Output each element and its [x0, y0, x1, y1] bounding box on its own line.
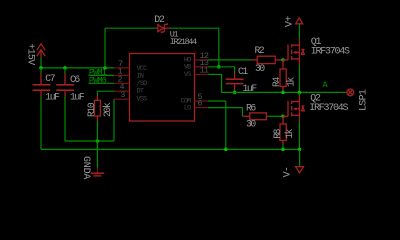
wire VB to C1 — [208, 66, 235, 68]
wire D2 cathode to VB — [171, 27, 219, 29]
wire R6 to Q2 gate — [268, 115, 283, 117]
svg-text:1uF: 1uF — [70, 91, 85, 102]
svg-text:V+: V+ — [285, 16, 296, 27]
svg-text:LO: LO — [184, 104, 191, 112]
pin VCC 7 — [114, 67, 130, 69]
svg-text:VS: VS — [184, 71, 191, 79]
node Q2 source ground junction — [298, 148, 302, 152]
diode D2 — [154, 15, 170, 33]
power V+ symbol — [285, 16, 303, 27]
wire V+ to Q1 drain — [298, 24, 300, 39]
node C1 bottom junction — [233, 91, 237, 95]
svg-text:PWM0: PWM0 — [89, 75, 107, 85]
node Q1 gate junction — [281, 58, 285, 62]
wire Q2 drain from node A — [298, 92, 300, 96]
wire R10 to GNDA — [96, 121, 98, 141]
pin COM 5 — [195, 100, 209, 102]
power V- symbol — [283, 167, 304, 178]
svg-text:LSP1: LSP1 — [359, 89, 370, 111]
svg-text:GNDA: GNDA — [80, 156, 91, 179]
svg-text:1uF: 1uF — [45, 91, 60, 102]
ground rail wire — [41, 148, 300, 150]
svg-text:D2: D2 — [154, 15, 165, 26]
wire to V- — [299, 149, 301, 166]
wire +15V stem — [40, 58, 42, 68]
node VCC junction at C6 — [63, 66, 67, 70]
svg-text:20k: 20k — [102, 102, 113, 117]
wire D2 anode branch — [104, 28, 106, 68]
node Q2 gate junction — [281, 115, 285, 119]
wire DT to R10 — [97, 90, 114, 92]
power +15V symbol — [24, 43, 45, 65]
node VCC junction at +15V — [39, 66, 43, 70]
pin IN 1 — [114, 74, 130, 76]
pin VS 11 — [195, 73, 209, 75]
transistor Q2 IRF3704S — [283, 94, 348, 121]
pad LSP1 — [346, 89, 370, 111]
wire node A horizontal — [222, 91, 346, 93]
svg-text:+15V: +15V — [24, 43, 35, 65]
op-amp U1 IR21844 box — [130, 30, 198, 121]
pin /SD 2 — [114, 82, 130, 84]
node COM ground junction — [224, 148, 228, 152]
wire C7 to ground rail — [40, 97, 42, 149]
wire COM to ground rail — [208, 100, 226, 102]
wire Q2 source to ground rail — [298, 121, 300, 149]
svg-text:IR21844: IR21844 — [170, 37, 197, 47]
node A main junction — [298, 91, 302, 95]
svg-text:11: 11 — [200, 65, 209, 75]
wire Q1 source to node A — [298, 65, 300, 92]
wire VSS to GNDA — [113, 99, 115, 141]
pin VB 13 — [195, 66, 209, 68]
wire VS to node A — [208, 73, 222, 75]
node R4 bottom junction — [281, 91, 285, 95]
pin VSS 3 — [114, 98, 130, 100]
capacitor C6 — [56, 68, 85, 102]
node GNDA junction — [96, 139, 100, 143]
resistor R2 — [252, 45, 284, 74]
node VCC junction at D2 branch — [103, 66, 107, 70]
wire PWM1 net — [89, 74, 115, 76]
svg-text:VSS: VSS — [137, 95, 148, 103]
transistor Q1 IRF3704S — [283, 37, 350, 65]
wire LO to R6 — [208, 107, 243, 109]
wire HO to R2 — [208, 59, 252, 61]
svg-text:IRF3704S: IRF3704S — [309, 103, 348, 114]
wire GNDA horizontal — [65, 140, 114, 142]
node VB junction — [217, 65, 221, 69]
ground GNDA — [80, 141, 104, 179]
pin LO 6 — [195, 107, 209, 109]
resistor R8 — [272, 116, 295, 149]
wire VCC rail — [41, 67, 114, 69]
pin DT 4 — [114, 90, 130, 92]
resistor R4 — [271, 60, 297, 93]
svg-text:V-: V- — [283, 167, 294, 178]
svg-text:6: 6 — [198, 99, 203, 109]
svg-text:R10: R10 — [86, 102, 97, 117]
svg-text:IRF3704S: IRF3704S — [311, 47, 350, 58]
resistor R10 — [86, 91, 113, 121]
resistor R6 — [243, 103, 269, 130]
pin HO 12 — [195, 59, 209, 61]
wire PWM0 net — [89, 82, 115, 84]
svg-text:3: 3 — [120, 90, 125, 100]
capacitor C1 — [226, 66, 258, 94]
node R8 bottom junction — [281, 148, 285, 152]
capacitor C7 — [33, 68, 61, 102]
wire C6 to GNDA line — [64, 97, 66, 141]
